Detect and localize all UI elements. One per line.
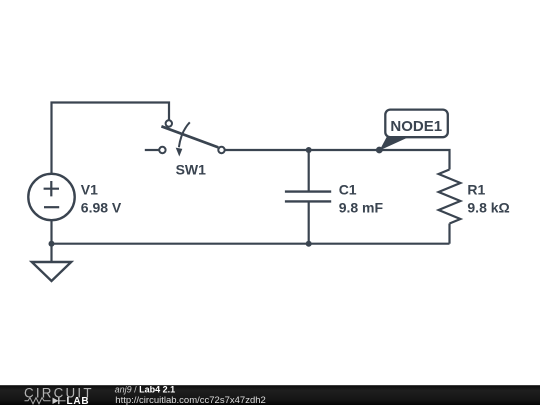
resistor R1 [439,170,461,224]
node NODE1 flag [376,110,448,154]
wire R1 bottom lead [448,224,450,244]
svg-text:9.8 kΩ: 9.8 kΩ [467,199,509,215]
svg-text:LAB: LAB [67,396,90,405]
capacitor C1 [285,192,331,202]
junction at C1 bottom [306,241,312,247]
svg-text:V1: V1 [81,182,98,198]
switch SW1 [159,120,225,156]
wire bottom rail [52,243,450,245]
svg-text:anj9 / Lab4 2.1: anj9 / Lab4 2.1 [115,385,176,395]
wire from switch common to R1 top [225,150,450,170]
wire C1 top lead [308,150,310,192]
CircuitLab logo [24,385,94,405]
wire top-left from V1 to switch top throw [52,103,170,176]
svg-text:SW1: SW1 [176,161,207,177]
junction at C1 top [306,147,312,153]
junction at V1 bottom [49,241,55,247]
wire V1 bottom lead to ground [50,220,52,262]
ground [32,262,71,281]
svg-text:R1: R1 [467,182,485,198]
svg-text:9.8 mF: 9.8 mF [339,199,384,215]
footer bar [0,385,540,405]
voltage source V1 [28,174,74,220]
wire C1 bottom lead [308,201,310,243]
wire switch left throw stub [145,149,159,151]
svg-text:NODE1: NODE1 [390,118,442,135]
svg-text:C1: C1 [339,182,357,198]
svg-text:http://circuitlab.com/cc72s7x4: http://circuitlab.com/cc72s7x47zdh2 [115,395,265,405]
svg-text:6.98 V: 6.98 V [81,199,122,215]
